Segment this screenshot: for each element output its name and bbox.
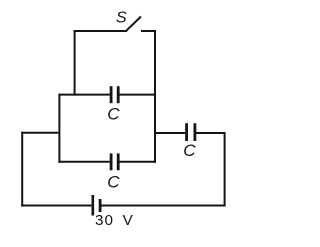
capacitor C1 plates (top of parallel block) — [111, 86, 118, 103]
switch S blade — [126, 17, 141, 32]
wire: parallel block top edge right of capacitor C1 — [119, 94, 156, 96]
wire: right vertical (switch loop and parallel block right side) — [154, 30, 156, 163]
wire: parallel block left side vertical — [58, 94, 60, 163]
svg-text:S: S — [116, 10, 127, 27]
wire: bottom wire right of battery — [102, 205, 226, 207]
capacitor C2 plates (bottom of parallel block) — [111, 153, 118, 170]
wire: switch right contact horizontal — [141, 30, 156, 32]
wire: outer loop right vertical — [224, 133, 226, 207]
wire: bottom wire left of battery — [21, 205, 91, 207]
label 30 V (battery) — [95, 212, 134, 229]
svg-text:30 V: 30 V — [95, 212, 134, 229]
wire: left feed horizontal from outer loop to parallel block — [21, 132, 58, 134]
capacitor C3 plates (right branch) — [187, 123, 195, 141]
svg-text:C: C — [107, 172, 120, 191]
label C (capacitor C2) — [107, 172, 120, 191]
svg-text:C: C — [183, 141, 196, 160]
battery 30 V plates — [93, 195, 100, 216]
wire: right feed horizontal from capacitor C3 to outer loop — [196, 132, 226, 134]
svg-text:C: C — [107, 104, 120, 123]
wire: parallel block bottom edge left of capacitor C2 — [58, 161, 109, 163]
label S (switch) — [116, 10, 127, 27]
wire: right feed horizontal from parallel block to capacitor C3 — [155, 132, 185, 134]
wire: switch loop top-left horizontal — [74, 30, 127, 32]
wire: switch loop left vertical — [74, 30, 76, 96]
label C (capacitor C1) — [107, 104, 120, 123]
wire: outer loop left vertical — [21, 132, 23, 207]
wire: parallel block bottom edge right of capacitor C2 — [119, 161, 156, 163]
label C (capacitor C3) — [183, 141, 196, 160]
wire: parallel block top edge left of capacitor C1 — [58, 94, 109, 96]
